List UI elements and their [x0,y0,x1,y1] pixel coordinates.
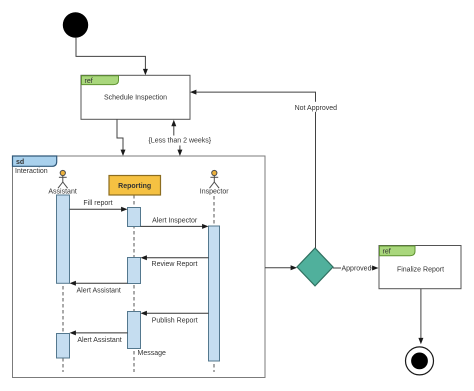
svg-text:{Less than 2 weeks}: {Less than 2 weeks} [148,138,211,145]
svg-text:Message: Message [138,350,167,357]
sd tab [13,156,57,166]
label Not Approved [294,102,340,112]
svg-text:Review Report: Review Report [152,261,198,268]
svg-text:Alert Assistant: Alert Assistant [77,337,121,344]
svg-text:Alert Inspector: Alert Inspector [152,218,198,225]
final node [406,347,434,375]
activation Reporting 2 [128,258,141,284]
activation Reporting 1 [128,208,141,227]
svg-text:Not Approved: Not Approved [295,105,338,112]
svg-text:Publish Report: Publish Report [152,317,198,324]
activity Finalize Report [379,246,461,289]
svg-text:Reporting: Reporting [118,183,151,190]
svg-text:Fill report: Fill report [83,200,112,207]
lifeline Inspector (dashed) [213,196,215,372]
decision diamond [297,248,333,286]
activation Inspector [209,226,220,361]
wire: initial node to Schedule Inspection [76,38,145,71]
message Fill report [70,208,125,210]
svg-text:Finalize Report: Finalize Report [397,267,444,274]
message Review Report [144,257,209,259]
wire: down arrow into frame [179,146,181,153]
wire: Schedule Inspection to interaction frame [117,120,123,153]
svg-text:ref: ref [85,78,93,85]
activation Assistant 2 [57,334,70,359]
activity Schedule Inspection [81,75,190,119]
lifeline Assistant (dashed) [62,196,64,372]
svg-text:Inspector: Inspector [200,189,229,196]
svg-text:Interaction: Interaction [15,168,48,175]
message Alert Inspector [141,225,206,227]
svg-text:Schedule Inspection: Schedule Inspection [104,94,167,101]
actor Inspector [210,170,220,188]
message Alert Assistant 1 [73,282,128,284]
wire: Not Approved path [194,92,316,248]
wire: up arrow into Schedule Inspection [173,124,175,136]
wire: frame to decision diamond [265,267,294,269]
actor Assistant [58,170,68,188]
activation Assistant 1 [57,195,70,283]
svg-text:ref: ref [383,249,391,256]
message Alert Assistant 2 [73,332,128,334]
interaction frame [13,156,266,378]
lifeline Reporting (dashed) [133,195,135,372]
lifeline head Reporting [109,176,161,196]
wire: Approved path [333,267,341,269]
svg-text:Alert Assistant: Alert Assistant [77,287,121,294]
svg-text:sd: sd [16,159,24,166]
activation Reporting 3 [128,312,141,349]
wire: Finalize Report to final node [420,289,422,341]
svg-text:Approved: Approved [342,266,372,273]
message Publish Report [144,312,209,314]
initial node [63,12,88,37]
